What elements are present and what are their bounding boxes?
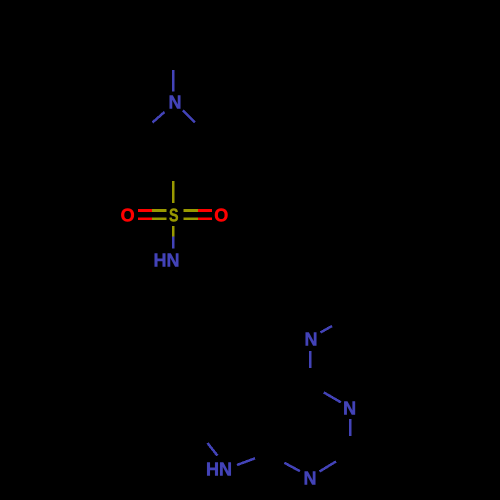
wire S=O right double bond upper line (O half red) [198,209,212,212]
wire C7a-N1 bond (N half) [284,463,300,471]
wire N7-C7a bond (N half) [237,458,255,465]
wire exocyclic N-CH3 bond (N half) [321,326,333,333]
svg-text:S: S [169,206,179,226]
wire N-CH3 bond (azetidine N-methyl, N half) [172,70,175,92]
svg-text:HN: HN [154,251,180,271]
wire S=O left double bond lower line (S half olive) [152,217,166,220]
wire S-NH bond (S half olive) [172,226,175,237]
svg-text:N: N [343,399,356,419]
wire S=O right double bond lower line (S half olive) [183,217,197,220]
wire C4-N3 bond (N half) [324,392,341,402]
wire S=O left double bond upper line (O half red) [138,209,152,212]
svg-text:N: N [305,330,318,350]
wire S-NH bond (N half blue) [172,237,175,249]
svg-text:O: O [121,206,135,226]
svg-text:HN: HN [206,459,232,479]
svg-text:N: N [304,469,317,489]
wire azetidine N-C2 bond (N half) [183,111,195,123]
wire S=O right double bond lower line (O half red) [198,217,212,220]
wire azetidine N-C4 bond (N half) [153,112,165,123]
wire S=O left double bond upper line (S half olive) [152,209,166,212]
wire C2-N1 bond (N half) [320,462,337,472]
wire N3-C2 bond (N half) [349,419,352,436]
wire exocyclic N-C4 bond (N half) [309,351,312,368]
wire S=O left double bond lower line (O half red) [138,217,152,220]
wire S=O right double bond upper line (S half olive) [183,209,197,212]
wire N7-C6 bond (N half) [208,443,218,456]
svg-text:O: O [214,206,228,226]
wire C3-S bond (S half) [172,181,175,203]
svg-text:N: N [169,93,182,113]
